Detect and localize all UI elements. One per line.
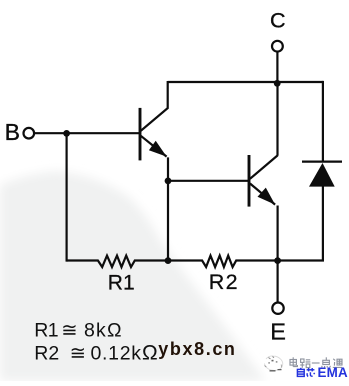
transistor Q2 emitter arrow — [258, 188, 276, 205]
transistor Q2 emitter — [250, 184, 275, 205]
node dot Q1 emitter / Q2 base — [165, 178, 172, 185]
wire E terminal lead — [277, 261, 279, 303]
glyph 路 — [300, 359, 310, 368]
wire B terminal lead — [34, 132, 141, 134]
transistor Q2 collector — [250, 155, 278, 178]
svg-text:B: B — [5, 119, 20, 145]
node dot R2-E junction — [274, 257, 281, 264]
svg-text:R2: R2 — [34, 342, 59, 364]
wire B node down to bottom bus — [65, 133, 67, 261]
wire Q2 base — [167, 180, 250, 182]
wire Q1 emitter down — [167, 157, 169, 261]
transistor Q1 base bar — [139, 108, 142, 160]
wire diode branch lower — [322, 186, 324, 261]
diode D1 cathode bar — [302, 161, 342, 163]
node dot C bus — [274, 80, 281, 87]
wire top bus C — [168, 81, 323, 83]
logo text 自芯 (drawn glyphs, blue) — [297, 368, 314, 377]
glyph 自 — [297, 368, 304, 377]
glyph 通 — [333, 359, 342, 368]
diode D1 triangle — [309, 163, 335, 187]
background wash — [0, 171, 266, 381]
wire bottom bus with resistor zigzags — [67, 256, 324, 267]
svg-text:≅: ≅ — [70, 342, 86, 364]
svg-text:R1: R1 — [108, 272, 135, 295]
terminal circle E — [272, 303, 283, 314]
transistor Q1 emitter arrow — [149, 141, 167, 157]
svg-text:C: C — [270, 8, 286, 32]
node dot R1-R2 junction — [165, 257, 172, 264]
svg-text:≅: ≅ — [61, 319, 77, 341]
wire C terminal lead — [276, 52, 278, 84]
wire C node to Q2 collector — [276, 82, 278, 156]
glyph 点 — [322, 357, 331, 367]
terminal circle C — [272, 41, 283, 52]
svg-text:EMA: EMA — [318, 365, 348, 380]
svg-text:ybx8.cn: ybx8.cn — [158, 339, 236, 359]
node dot B branch — [63, 130, 70, 137]
logo icon stamp — [265, 356, 283, 371]
transistor Q1 collector — [141, 81, 168, 131]
transistor Q1 emitter — [141, 136, 167, 157]
glyph 电 — [290, 357, 297, 366]
svg-text:R2: R2 — [209, 270, 239, 294]
glyph 一 — [312, 362, 320, 364]
svg-text:E: E — [270, 318, 286, 344]
svg-text:8kΩ: 8kΩ — [84, 319, 123, 341]
glyph 芯 — [307, 368, 315, 376]
svg-text:0.12k: 0.12k — [91, 342, 142, 364]
terminal circle B — [24, 128, 35, 139]
wire Q2 emitter down — [277, 206, 279, 262]
logo text 电路一点通 (drawn glyphs, gray) — [290, 357, 342, 368]
wire diode branch upper — [322, 81, 324, 163]
transistor Q2 base bar — [248, 155, 251, 207]
svg-text:R1: R1 — [34, 319, 58, 341]
svg-text:Ω: Ω — [142, 342, 158, 365]
